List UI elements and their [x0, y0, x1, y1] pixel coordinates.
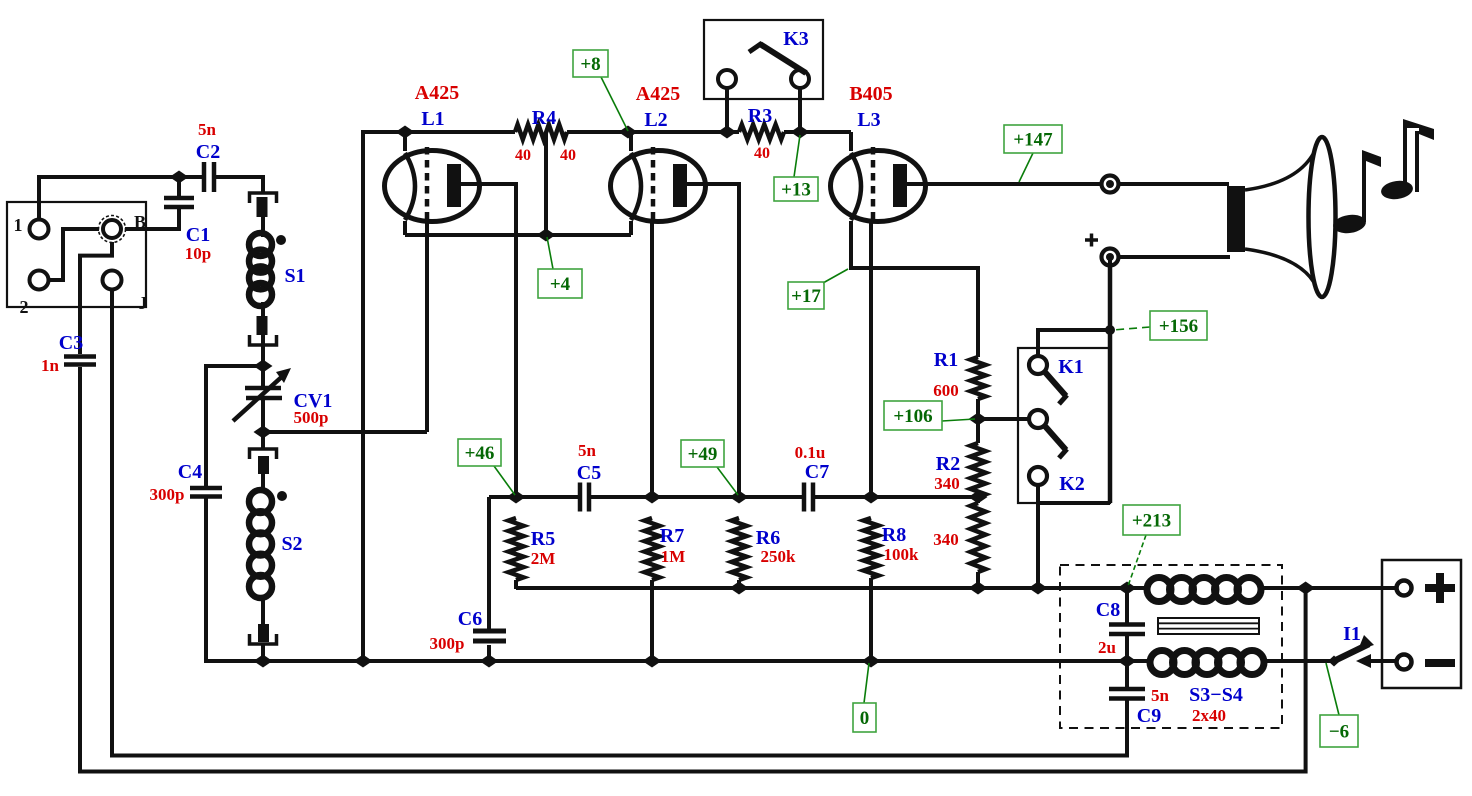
svg-text:2M: 2M [531, 549, 556, 568]
svg-text:300p: 300p [430, 634, 465, 653]
svg-text:40: 40 [515, 147, 531, 164]
svg-text:L3: L3 [857, 109, 880, 131]
svg-text:−6: −6 [1329, 722, 1349, 743]
svg-text:I1: I1 [1343, 623, 1361, 645]
svg-text:40: 40 [754, 145, 770, 162]
svg-text:+13: +13 [781, 180, 811, 201]
svg-text:A425: A425 [415, 82, 459, 104]
svg-text:+46: +46 [465, 443, 495, 464]
svg-text:1: 1 [14, 215, 23, 235]
svg-text:+17: +17 [791, 286, 821, 307]
svg-text:0: 0 [860, 708, 870, 729]
svg-text:+106: +106 [893, 406, 932, 427]
svg-text:S2: S2 [281, 533, 302, 555]
svg-text:C2: C2 [196, 141, 220, 163]
svg-text:500p: 500p [294, 408, 329, 427]
svg-text:B: B [134, 212, 146, 232]
svg-text:C5: C5 [577, 462, 601, 484]
svg-text:100k: 100k [884, 545, 920, 564]
svg-text:R7: R7 [660, 525, 684, 547]
svg-text:K3: K3 [783, 28, 809, 50]
svg-text:340: 340 [934, 474, 960, 493]
svg-text:5n: 5n [578, 441, 597, 460]
svg-text:R3: R3 [748, 105, 772, 127]
svg-text:2: 2 [20, 297, 29, 317]
svg-text:2x40: 2x40 [1192, 706, 1226, 725]
svg-text:C1: C1 [186, 224, 210, 246]
svg-text:1M: 1M [661, 547, 686, 566]
svg-text:5n: 5n [1151, 686, 1170, 705]
svg-text:C6: C6 [458, 608, 482, 630]
svg-text:R1: R1 [934, 349, 958, 371]
svg-text:C4: C4 [178, 461, 202, 483]
svg-text:40: 40 [560, 147, 576, 164]
svg-text:S3−S4: S3−S4 [1189, 684, 1243, 706]
svg-text:S1: S1 [284, 265, 305, 287]
svg-text:L1: L1 [421, 108, 444, 130]
svg-text:+213: +213 [1132, 511, 1171, 532]
svg-text:L2: L2 [644, 109, 667, 131]
svg-text:300p: 300p [150, 485, 185, 504]
svg-text:1n: 1n [41, 356, 60, 375]
svg-text:C9: C9 [1137, 705, 1161, 727]
svg-text:340: 340 [933, 530, 959, 549]
svg-text:R2: R2 [936, 453, 960, 475]
svg-text:C7: C7 [805, 461, 829, 483]
svg-text:+147: +147 [1013, 130, 1053, 151]
svg-text:250k: 250k [761, 547, 797, 566]
svg-text:+4: +4 [550, 274, 571, 295]
svg-text:R6: R6 [756, 527, 780, 549]
svg-text:0.1u: 0.1u [795, 443, 826, 462]
svg-text:K2: K2 [1059, 473, 1085, 495]
svg-text:+156: +156 [1159, 316, 1198, 337]
svg-text:R4: R4 [532, 107, 556, 129]
svg-text:+49: +49 [688, 444, 718, 465]
svg-text:K1: K1 [1058, 356, 1084, 378]
svg-text:R5: R5 [531, 528, 555, 550]
svg-text:C8: C8 [1096, 599, 1120, 621]
svg-text:600: 600 [933, 381, 959, 400]
svg-text:C3: C3 [59, 332, 83, 354]
svg-text:R8: R8 [882, 524, 906, 546]
svg-text:A425: A425 [636, 83, 680, 105]
svg-text:+8: +8 [580, 54, 600, 75]
svg-text:B405: B405 [849, 83, 892, 105]
svg-text:5n: 5n [198, 120, 217, 139]
svg-text:J: J [139, 293, 148, 313]
svg-text:10p: 10p [185, 244, 211, 263]
svg-text:2u: 2u [1098, 638, 1116, 657]
